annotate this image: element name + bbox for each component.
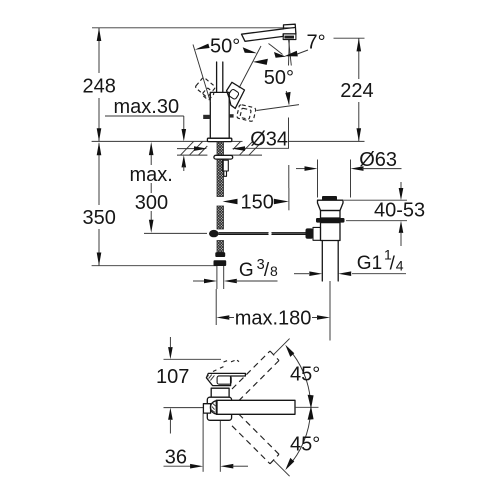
svg-text:max.180: max.180 — [235, 307, 312, 329]
svg-text:40-53: 40-53 — [374, 200, 425, 222]
spout axis tick right — [295, 406, 319, 408]
45° extension line bottom — [274, 460, 290, 476]
svg-text:4: 4 — [396, 258, 404, 274]
angle line dashed-handle axis extension — [257, 105, 300, 111]
lever handle (plan) — [206, 373, 245, 385]
svg-text:G: G — [239, 260, 254, 281]
counter hatching — [181, 142, 262, 156]
spout axis line left — [164, 407, 204, 409]
dashed handle left (50° position) — [195, 77, 216, 100]
dashes above lever (handle alt position) — [213, 360, 239, 372]
svg-text:150: 150 — [241, 192, 274, 214]
label G1 1/4 — [294, 247, 406, 277]
svg-text:45°: 45° — [290, 434, 320, 456]
svg-text:/: / — [264, 260, 270, 281]
faucet base (plan outer) — [207, 397, 231, 420]
dimension max.300 — [130, 142, 173, 233]
svg-text:/: / — [390, 254, 396, 275]
svg-text:7°: 7° — [307, 31, 326, 53]
top line of plan view — [164, 358, 222, 360]
45° arc bottom — [285, 406, 313, 470]
svg-text:36: 36 — [165, 447, 187, 469]
shank nut 2 (hose connection) — [214, 260, 227, 266]
base plate — [207, 138, 231, 141]
dimension Ø63 — [296, 149, 402, 198]
counter bottom line — [177, 154, 262, 156]
svg-text:Ø34: Ø34 — [250, 128, 288, 150]
faucet centre extension line (max.180 left) — [215, 289, 217, 325]
svg-text:107: 107 — [156, 366, 189, 388]
label 7° with leader — [269, 31, 326, 58]
faucet body (plan upper square) — [211, 388, 229, 398]
top reference extension line — [92, 27, 294, 29]
dimension 150 — [223, 188, 289, 214]
angle line left (50°) — [193, 45, 210, 103]
svg-text:248: 248 — [83, 76, 116, 98]
label 50° (handle swing down) — [253, 59, 294, 105]
body side tab right — [229, 114, 233, 117]
body side tab left — [203, 115, 210, 119]
hose fitting blocks right of shank — [222, 160, 228, 176]
svg-text:8: 8 — [270, 263, 278, 279]
45° arc top — [285, 345, 313, 409]
drain flange — [318, 200, 344, 210]
drain pop-up waste: cap — [322, 196, 337, 200]
svg-text:300: 300 — [135, 192, 168, 214]
drain body lower — [321, 223, 341, 241]
counter top line — [92, 140, 365, 142]
drain rod clamp — [313, 227, 321, 240]
svg-text:G1: G1 — [357, 253, 382, 274]
label 50° (handle swing left) — [195, 35, 257, 57]
side tab square (plan) — [203, 404, 210, 413]
dashed spout rotated up 45° — [232, 351, 279, 401]
drain seal ring (black band) — [316, 218, 345, 223]
svg-text:max.: max. — [130, 164, 173, 186]
lever stick (vertical position) — [217, 62, 223, 92]
dimension Ø34 — [177, 128, 289, 151]
7° angle lines — [289, 40, 292, 66]
svg-text:max.30: max.30 — [114, 96, 180, 118]
dimension max.180 — [216, 307, 330, 329]
svg-text:50°: 50° — [210, 35, 240, 57]
pop-up horizontal rod — [219, 233, 308, 235]
spout (plan, solid) — [216, 400, 295, 414]
shank nut 1 — [215, 252, 225, 257]
dimension 224 — [334, 38, 374, 141]
45° extension line top — [274, 339, 290, 355]
svg-text:350: 350 — [83, 207, 116, 229]
threaded shank (crosshatched) — [217, 142, 224, 253]
dimension 107 — [156, 337, 189, 434]
svg-text:50°: 50° — [264, 67, 294, 89]
svg-text:45°: 45° — [290, 364, 320, 386]
dashed handle right (50° down position) — [236, 104, 256, 121]
dimension 248 — [83, 28, 116, 142]
aerator extension line (150 dim) — [288, 118, 290, 189]
svg-text:Ø63: Ø63 — [359, 149, 397, 171]
dimension 40-53 — [344, 182, 425, 246]
350 bottom extension line — [92, 265, 217, 267]
svg-text:224: 224 — [340, 80, 373, 102]
faucet body — [210, 92, 229, 138]
dimension 36 — [164, 413, 249, 472]
max.300 bottom tick line — [144, 232, 207, 234]
drain tailpipe — [322, 241, 338, 282]
drain body upper — [321, 211, 341, 219]
supply hose — [217, 266, 224, 289]
lock nut under counter — [214, 155, 233, 159]
pop-up rod ball joint — [209, 230, 219, 237]
dashed spout rotated down 45° — [232, 414, 279, 464]
solid lever handle — [227, 82, 245, 108]
drain centre line — [329, 281, 331, 341]
dimension max.30 — [105, 96, 186, 171]
spout — [242, 24, 296, 41]
angle line right (handle axis) — [239, 46, 261, 88]
aerator — [283, 34, 296, 40]
dimension 350 — [83, 142, 116, 266]
label G 3/8 — [193, 257, 278, 284]
spout swivel joint semicircle — [210, 401, 217, 414]
drain rod knob — [306, 228, 314, 238]
